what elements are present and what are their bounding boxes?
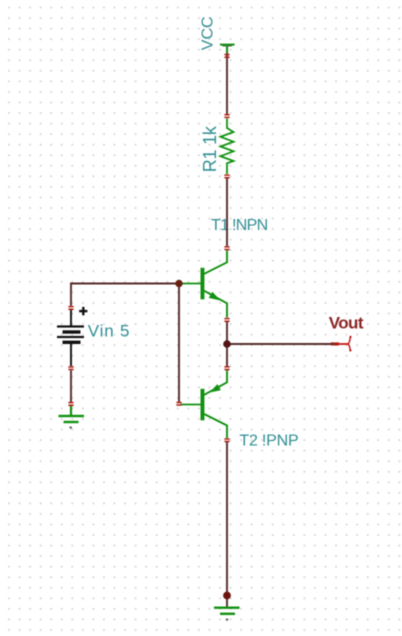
- svg-text:T2 !PNP: T2 !PNP: [239, 433, 298, 450]
- svg-text:R1 1k: R1 1k: [200, 125, 220, 172]
- svg-text:VCC: VCC: [200, 16, 217, 50]
- svg-text:Vout: Vout: [329, 314, 364, 333]
- svg-text:T1 !NPN: T1 !NPN: [211, 217, 268, 234]
- svg-text:Vin 5: Vin 5: [88, 322, 130, 341]
